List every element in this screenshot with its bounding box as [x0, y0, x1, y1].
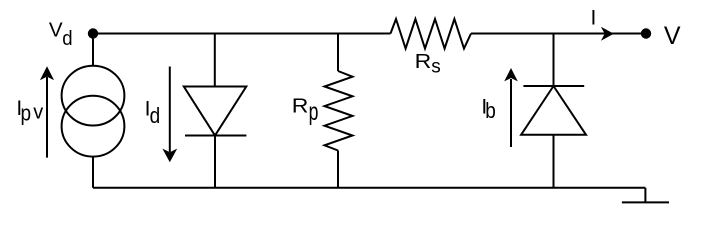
wire bypass diode to bottom rail: [553, 135, 555, 188]
wire top rail down to resistor Rp: [337, 34, 339, 72]
arrow Ipv: [40, 66, 54, 157]
label Id: [145, 98, 161, 129]
svg-text:p: p: [21, 101, 32, 126]
label Rp: [292, 94, 319, 126]
svg-text:d: d: [150, 104, 161, 129]
arrow Ib: [504, 68, 518, 147]
resistor Rp: [325, 71, 353, 151]
wire top rail down to bypass diode: [553, 34, 555, 87]
wire top rail right (Rs to node V): [471, 33, 646, 35]
wire node Vd down to current source: [92, 34, 94, 67]
node Vd: [88, 28, 98, 38]
arrow current I: [601, 27, 614, 41]
svg-text:R: R: [292, 94, 309, 118]
node V: [641, 28, 651, 38]
wire top rail left (node Vd to Rs): [93, 33, 391, 35]
arrow Id: [162, 67, 177, 163]
wire diode D to bottom rail: [214, 136, 216, 188]
wire top rail down to diode D: [214, 34, 216, 87]
wire resistor Rp to bottom rail: [337, 151, 339, 188]
bypass diode (Ib branch): [521, 86, 586, 135]
svg-text:b: b: [485, 99, 496, 124]
svg-text:d: d: [62, 27, 72, 50]
svg-text:V: V: [664, 22, 681, 50]
svg-text:R: R: [415, 49, 432, 73]
current source Ipv: [62, 66, 125, 157]
svg-text:p: p: [309, 97, 319, 126]
svg-text:v: v: [33, 102, 43, 124]
svg-text:V: V: [49, 19, 63, 42]
label Ib: [481, 96, 495, 124]
svg-text:I: I: [591, 7, 597, 30]
svg-text:s: s: [431, 57, 441, 78]
label Rs: [415, 49, 441, 77]
label Ipv: [16, 97, 43, 126]
ground: [622, 188, 669, 203]
wire current source to bottom rail: [92, 157, 94, 188]
resistor Rs: [391, 19, 472, 49]
wire bottom rail: [93, 187, 645, 189]
label Vd: [49, 19, 73, 50]
diode D (Id branch): [184, 87, 247, 136]
